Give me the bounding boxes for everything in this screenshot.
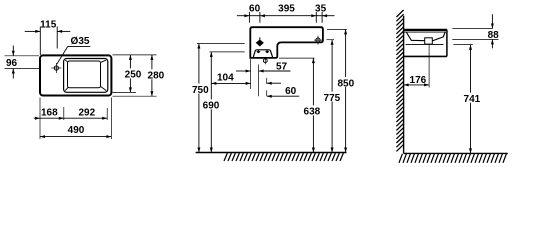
svg-text:168: 168 (41, 108, 58, 119)
svg-text:60: 60 (285, 86, 297, 97)
svg-text:490: 490 (68, 125, 85, 136)
svg-text:741: 741 (464, 94, 481, 105)
svg-text:104: 104 (217, 73, 234, 84)
svg-text:176: 176 (410, 75, 427, 86)
svg-text:115: 115 (40, 20, 57, 31)
svg-text:690: 690 (203, 101, 220, 112)
svg-text:395: 395 (278, 3, 295, 14)
svg-text:35: 35 (315, 3, 327, 14)
svg-text:250: 250 (125, 70, 142, 81)
svg-text:775: 775 (324, 93, 341, 104)
svg-text:292: 292 (78, 108, 95, 119)
svg-text:57: 57 (276, 62, 288, 73)
svg-text:60: 60 (249, 3, 261, 14)
svg-text:280: 280 (148, 70, 165, 81)
svg-text:850: 850 (337, 78, 354, 89)
svg-text:750: 750 (192, 85, 209, 96)
svg-text:Ø35: Ø35 (71, 36, 90, 47)
svg-text:96: 96 (6, 58, 18, 69)
svg-text:88: 88 (488, 30, 500, 41)
svg-text:638: 638 (304, 107, 321, 118)
